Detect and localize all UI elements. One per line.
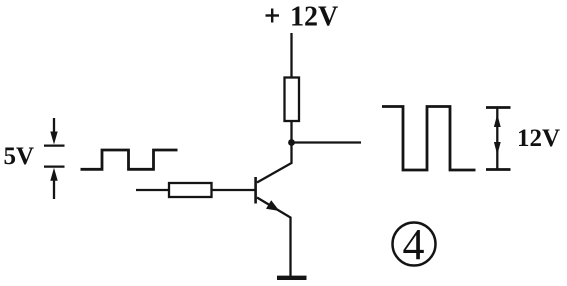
- node: collector junction dot: [288, 139, 295, 146]
- svg-text:12V: 12V: [290, 2, 338, 33]
- wire from Rb to base: [212, 189, 255, 191]
- output square waveform: [382, 107, 476, 171]
- figure number circle: [393, 223, 436, 266]
- input square waveform: [81, 150, 178, 169]
- wire from Rc to collector node: [290, 121, 292, 143]
- wire from +12V supply down to resistor Rc: [290, 33, 292, 78]
- resistor Rc (collector load): [285, 78, 300, 122]
- ground: [277, 276, 307, 280]
- svg-text:12V: 12V: [517, 125, 560, 152]
- dimension marker for 12V: [486, 108, 511, 170]
- transistor Q1 (NPN): [256, 143, 292, 278]
- base bar: [254, 177, 257, 204]
- svg-text:5V: 5V: [4, 143, 35, 170]
- wire: output wire from collector node to the right: [292, 141, 362, 143]
- svg-text:4: 4: [403, 220, 425, 269]
- collector lead: [257, 143, 292, 183]
- power rail label +12V: [266, 2, 339, 33]
- dimension marker for 5V: [44, 118, 65, 199]
- resistor Rb (base): [169, 183, 212, 197]
- emitter lead: [257, 198, 291, 278]
- wire: input lead left of base resistor: [136, 189, 169, 191]
- emitter arrow: [266, 200, 280, 211]
